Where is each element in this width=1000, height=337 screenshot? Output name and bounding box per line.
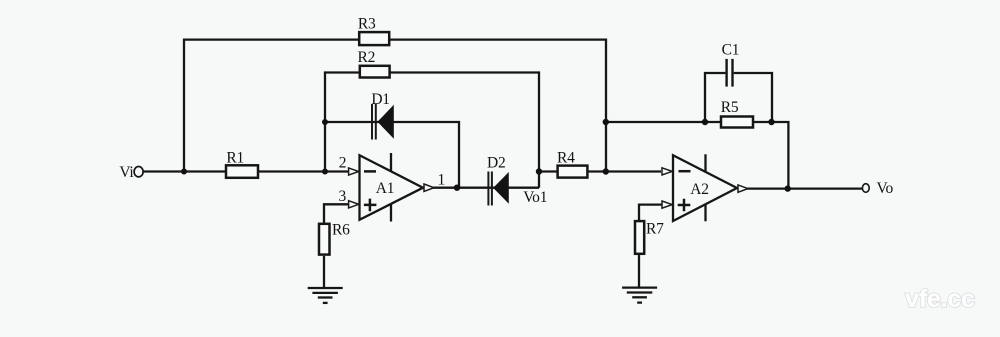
svg-text:Vo: Vo (877, 180, 894, 197)
svg-text:3: 3 (338, 188, 346, 205)
svg-text:Vo1: Vo1 (523, 189, 547, 206)
svg-text:D1: D1 (371, 91, 390, 108)
svg-text:2: 2 (339, 155, 347, 172)
svg-text:A1: A1 (376, 180, 395, 197)
svg-text:A2: A2 (690, 181, 709, 198)
svg-text:R3: R3 (358, 16, 376, 33)
svg-text:1: 1 (437, 172, 445, 189)
svg-text:vfe.cc: vfe.cc (905, 285, 975, 313)
svg-text:R2: R2 (358, 49, 376, 66)
svg-text:C1: C1 (722, 42, 740, 59)
svg-text:R1: R1 (226, 149, 244, 166)
svg-text:R5: R5 (721, 99, 739, 116)
svg-text:D2: D2 (487, 155, 506, 172)
svg-text:R4: R4 (557, 150, 575, 167)
svg-text:R7: R7 (646, 220, 664, 237)
svg-text:Vi: Vi (119, 164, 134, 181)
svg-text:R6: R6 (332, 221, 350, 238)
